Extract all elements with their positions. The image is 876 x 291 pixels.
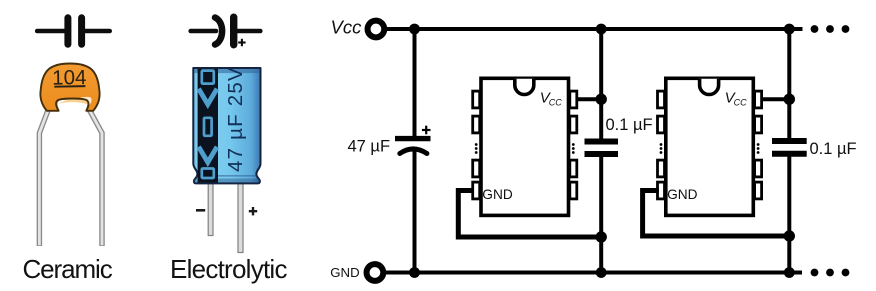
electrolytic minus mark bbox=[196, 209, 205, 212]
electrolytic capacitor lead positive bbox=[238, 182, 243, 253]
U2 pin 1 (left top) bbox=[658, 91, 665, 108]
GND terminal bbox=[330, 264, 383, 281]
node Vcc rail / C3 bbox=[784, 24, 795, 35]
node GND rail / C1 bbox=[409, 267, 420, 278]
U1 left pins ellipsis bbox=[475, 143, 478, 154]
C1 plus sign bbox=[422, 126, 431, 135]
svg-text:Ceramic: Ceramic bbox=[23, 254, 113, 284]
wire C2 branch bbox=[599, 29, 603, 273]
svg-text:47 µF: 47 µF bbox=[348, 137, 391, 155]
Vcc terminal bbox=[331, 17, 385, 38]
ceramic capacitor symbol (non-polarized) bbox=[37, 18, 110, 45]
wire U1 GND return bbox=[458, 191, 601, 238]
U1 pin 8 (right top, Vcc) bbox=[570, 91, 577, 108]
U1 body bbox=[481, 78, 569, 215]
U1 pin 6 bbox=[570, 160, 577, 177]
continuation ellipsis bottom right bbox=[811, 269, 850, 277]
electrolytic symbol plus sign bbox=[238, 39, 245, 46]
node GND rail / C3 bbox=[784, 267, 795, 278]
svg-text:CC: CC bbox=[549, 98, 562, 108]
ceramic capacitor lead right bbox=[89, 109, 102, 246]
U2 pin 4 (GND) bbox=[658, 182, 665, 199]
U2 pin 7 bbox=[755, 116, 762, 133]
U2 right pins ellipsis bbox=[757, 143, 760, 154]
U1 pin 4 (GND) bbox=[473, 182, 480, 199]
electrolytic plus mark bbox=[249, 207, 257, 215]
U1 pin 2 bbox=[473, 116, 480, 133]
node GND rail / C2 bbox=[596, 267, 607, 278]
negative stripe on can bbox=[198, 69, 218, 183]
U1 right pins ellipsis bbox=[572, 143, 575, 154]
svg-text:47 µF 25V: 47 µF 25V bbox=[224, 66, 247, 172]
ceramic capacitor body (104 disc) bbox=[40, 64, 99, 111]
U2 pin 5 bbox=[755, 182, 762, 199]
U2 body bbox=[666, 78, 754, 215]
node U1 Vcc / C2 branch bbox=[596, 94, 607, 105]
svg-text:Vcc: Vcc bbox=[331, 17, 363, 38]
wire C1 branch (Vcc rail to C1, C1 to GND rail) bbox=[413, 29, 417, 273]
svg-text:GND: GND bbox=[482, 187, 513, 202]
U2 pin 6 bbox=[755, 160, 762, 177]
U2 pin 3 bbox=[658, 160, 665, 177]
U2 pin 8 (right top, Vcc) bbox=[755, 91, 762, 108]
wire U2 GND return bbox=[643, 191, 790, 237]
IC U1 bbox=[473, 78, 577, 215]
wire GND bottom rail bbox=[385, 271, 802, 275]
continuation ellipsis top right bbox=[811, 25, 850, 33]
U1 pin 7 bbox=[570, 116, 577, 133]
capacitor C2 0.1uF bbox=[585, 142, 619, 155]
IC U2 bbox=[658, 78, 762, 215]
svg-text:GND: GND bbox=[667, 187, 698, 202]
U2 pin 2 bbox=[658, 116, 665, 133]
U2 pin1 notch bbox=[700, 79, 719, 95]
U1 pin 3 bbox=[473, 160, 480, 177]
ceramic capacitor lead left bbox=[39, 109, 48, 246]
node U2 GND / C3 branch bbox=[784, 230, 795, 241]
node U1 GND / C2 branch bbox=[596, 231, 607, 242]
svg-text:CC: CC bbox=[734, 98, 747, 108]
capacitor C1 47uF polarized bbox=[395, 139, 431, 154]
electrolytic capacitor lead negative bbox=[208, 182, 213, 236]
ceramic capacitor value label 104 bbox=[52, 66, 87, 90]
wire U1 Vcc pin to node bbox=[577, 97, 601, 101]
wire C3 branch bbox=[787, 29, 791, 273]
node U2 Vcc / C3 branch bbox=[784, 94, 795, 105]
svg-text:0.1 µF: 0.1 µF bbox=[606, 116, 653, 134]
svg-text:0.1 µF: 0.1 µF bbox=[810, 140, 857, 158]
svg-text:Electrolytic: Electrolytic bbox=[170, 254, 287, 284]
wire U2 Vcc pin to node bbox=[762, 97, 790, 101]
electrolytic capacitor body (47uF 25V can) bbox=[193, 66, 260, 183]
node Vcc rail / C2 bbox=[596, 24, 607, 35]
wire Vcc top rail bbox=[386, 27, 803, 31]
U1 pin 5 bbox=[570, 182, 577, 199]
U1 pin1 notch bbox=[515, 79, 534, 95]
U1 pin 1 (left top) bbox=[473, 91, 480, 108]
electrolytic capacitor symbol (polarized) bbox=[191, 17, 261, 45]
node Vcc rail / C1 bbox=[409, 24, 420, 35]
capacitor C3 0.1uF bbox=[772, 141, 807, 154]
U2 left pins ellipsis bbox=[660, 143, 663, 154]
svg-text:GND: GND bbox=[330, 265, 359, 280]
